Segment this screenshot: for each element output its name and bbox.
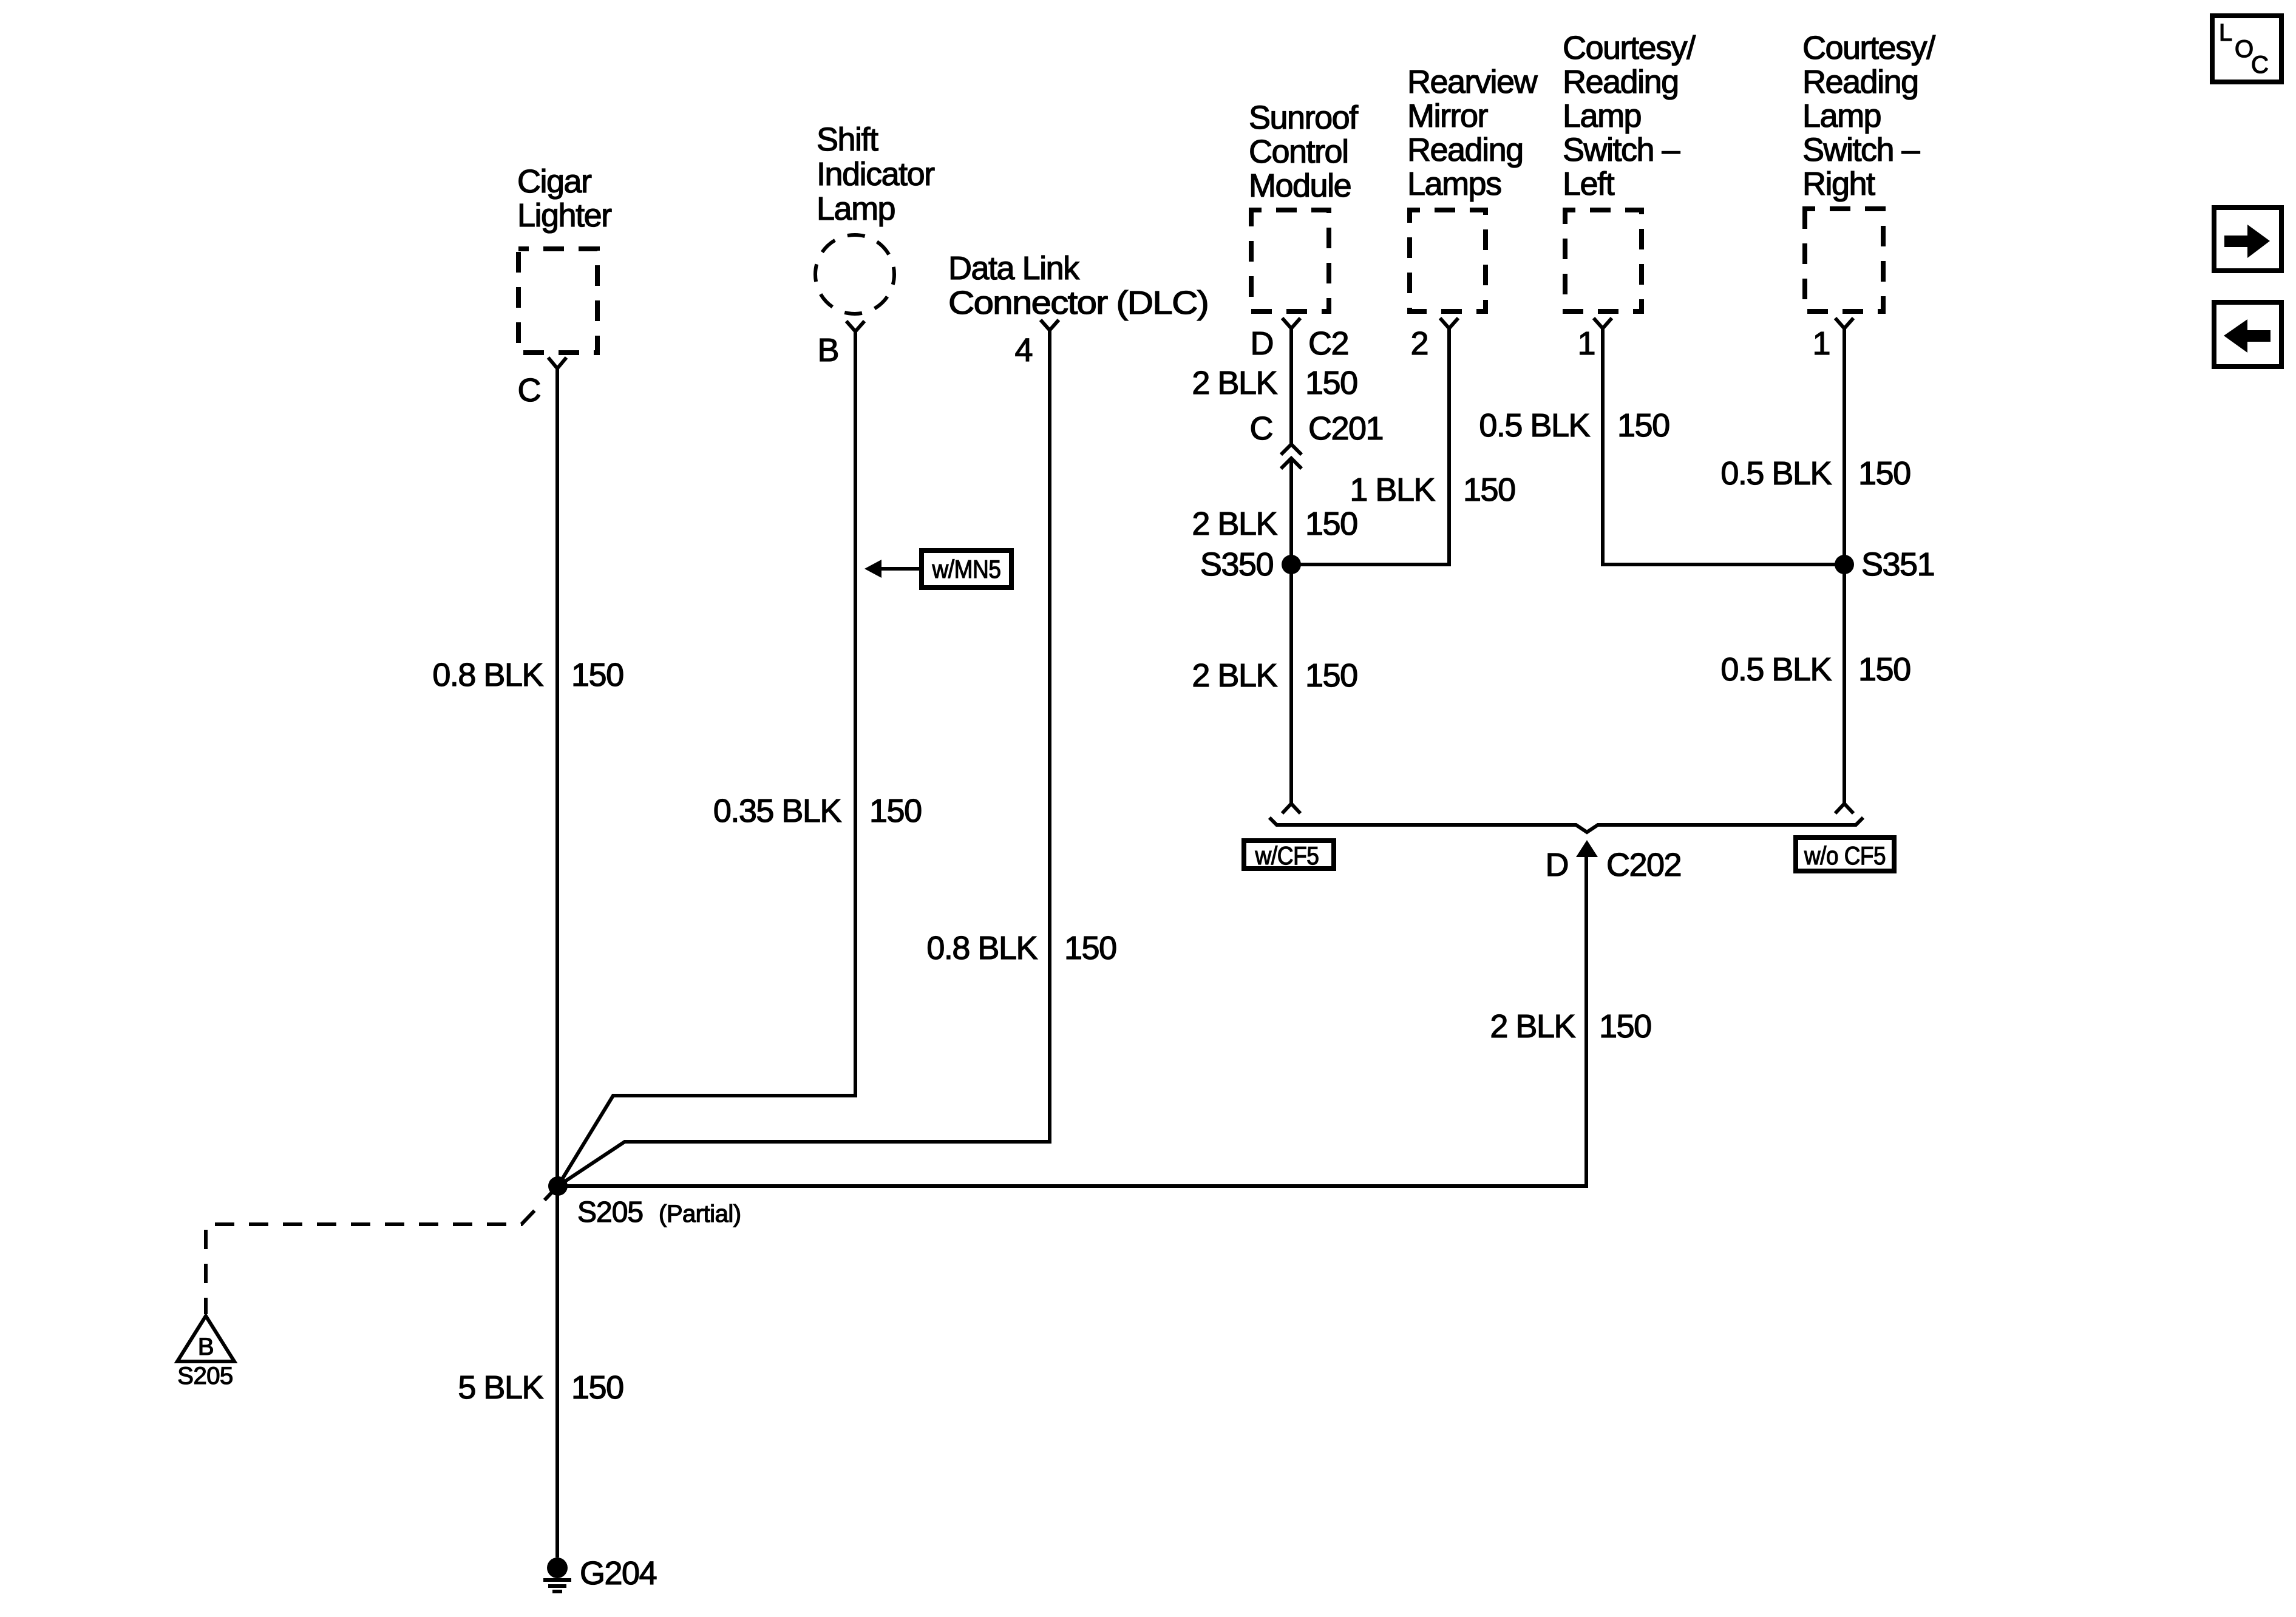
svg-text:0.35 BLK: 0.35 BLK [713,793,842,829]
svg-text:S205: S205 [177,1363,233,1389]
connector Y at rearview mirror lamps pin 2 [1440,318,1458,328]
wire courtesy switch left to S351, 0.5 BLK 150 [1603,328,1844,564]
option tag w/CF5 [1244,841,1334,870]
svg-text:G204: G204 [580,1555,657,1592]
wire label 5 BLK 150 [458,1369,623,1406]
connector Y at courtesy switch right pin 1 [1835,318,1853,328]
wire label 2 BLK 150 (above S350) [1192,506,1357,542]
wire label 0.5 BLK 150 [1479,407,1669,444]
svg-text:Lamp: Lamp [1563,98,1641,134]
svg-text:Connector (DLC): Connector (DLC) [948,285,1208,321]
dashed wire S205 to off-page reference B [206,1186,558,1314]
connector fork at bottom of sunroof ground wire [1282,804,1300,813]
wire C201 to S350 to C202, 2 BLK 150 [1289,458,1293,804]
svg-text:Cigar: Cigar [517,163,592,200]
ground G204 [543,1555,657,1592]
component Courtesy/Reading Lamp Switch - Left (dashed box) [1563,30,1696,311]
wire label 0.8 BLK 150 [432,657,623,693]
wire shift indicator lamp to S205, 0.35 BLK 150 [558,331,855,1186]
pin D label and connector C2 label [1251,325,1349,362]
svg-text:S205: S205 [577,1196,643,1229]
svg-text:S351: S351 [1861,546,1934,583]
svg-text:w/o CF5: w/o CF5 [1804,841,1886,870]
wire DLC to S205, 0.8 BLK 150 [558,330,1050,1186]
wire label 2 BLK 150 [1192,365,1357,401]
svg-text:150: 150 [571,657,623,693]
component Cigar Lighter (dashed box) [517,163,612,353]
component Sunroof Control Module (dashed box) [1249,100,1359,311]
svg-text:0.5 BLK: 0.5 BLK [1720,651,1832,688]
svg-text:Mirror: Mirror [1407,98,1488,134]
svg-text:150: 150 [1858,455,1911,492]
connector Y at courtesy switch left pin 1 [1594,318,1612,328]
wire label 0.35 BLK 150 [713,793,922,829]
right arrow navigation box [2214,208,2281,271]
svg-text:Indicator: Indicator [817,156,935,192]
svg-text:0.8 BLK: 0.8 BLK [432,657,543,693]
wire sunroof module to C201, 2 BLK 150 [1289,328,1293,444]
off-page reference triangle B S205 [177,1316,234,1389]
svg-text:B: B [198,1334,214,1360]
svg-text:C: C [518,372,541,408]
svg-text:4: 4 [1014,332,1032,368]
svg-text:5 BLK: 5 BLK [458,1369,543,1406]
svg-text:Rearview: Rearview [1407,64,1538,100]
wire label 0.8 BLK 150 [926,930,1116,966]
svg-text:Lamp: Lamp [817,191,895,227]
svg-text:Sunroof: Sunroof [1249,100,1359,136]
svg-text:Switch –: Switch – [1563,132,1680,168]
svg-text:0.5 BLK: 0.5 BLK [1720,455,1832,492]
svg-text:Lamps: Lamps [1407,166,1501,202]
wire label 2 BLK 150 [1490,1008,1651,1045]
svg-text:2 BLK: 2 BLK [1192,365,1277,401]
svg-text:Module: Module [1249,168,1351,204]
svg-text:Shift: Shift [817,121,878,158]
connector Y at DLC pin 4 [1041,320,1059,330]
svg-text:Lighter: Lighter [517,197,612,234]
svg-text:D: D [1546,847,1569,883]
component Rearview Mirror Reading Lamps (dashed box) [1407,64,1538,311]
svg-text:C: C [2251,52,2269,78]
svg-text:Reading: Reading [1407,132,1523,168]
LOC legend box [2212,16,2281,82]
wire label 0.5 BLK 150 (below S351) [1720,651,1910,688]
svg-text:C2: C2 [1308,325,1348,362]
svg-text:150: 150 [1858,651,1911,688]
svg-text:Control: Control [1249,134,1348,170]
wire label 0.5 BLK 150 (above S351) [1720,455,1910,492]
option tag w/o CF5 [1796,838,1894,871]
svg-text:1: 1 [1812,325,1830,362]
svg-text:Reading: Reading [1563,64,1679,100]
svg-text:150: 150 [571,1369,623,1406]
svg-text:C: C [1250,410,1273,447]
component Data Link Connector (DLC) label [948,250,1208,321]
splice S351 [1835,546,1934,583]
splice S350 [1200,546,1301,583]
svg-text:2: 2 [1410,325,1428,362]
connector C202 pin D arrow [1546,840,1682,883]
wire courtesy switch right to S351 to C202, 0.5 BLK 150 [1843,328,1846,804]
svg-text:150: 150 [1305,657,1357,694]
option tag w/MN5 with left arrow [864,551,1011,588]
svg-text:Left: Left [1563,166,1615,202]
svg-text:Right: Right [1802,166,1875,202]
connector Y at shift indicator lamp pin B [846,321,864,331]
svg-text:Courtesy/: Courtesy/ [1802,30,1935,66]
svg-text:B: B [817,332,838,368]
connector Y at cigar lighter pin C [548,358,566,368]
svg-text:D: D [1251,325,1274,362]
svg-text:150: 150 [1599,1008,1651,1045]
wire C202 to S205, 2 BLK 150 [558,851,1586,1186]
svg-text:150: 150 [1463,472,1515,508]
svg-text:150: 150 [1305,506,1357,542]
svg-text:1: 1 [1577,325,1595,362]
svg-text:Switch –: Switch – [1802,132,1920,168]
splice S205 (Partial) [548,1176,741,1229]
svg-text:2 BLK: 2 BLK [1490,1008,1575,1045]
connector Y at sunroof module pin D (C2) [1282,318,1300,328]
svg-text:(Partial): (Partial) [659,1201,741,1227]
svg-text:0.5 BLK: 0.5 BLK [1479,407,1590,444]
svg-text:0.8 BLK: 0.8 BLK [926,930,1038,966]
component Shift Indicator Lamp (dashed circle) [815,121,935,314]
wire rearview mirror lamps to S350, 1 BLK 150 [1291,328,1449,564]
svg-text:150: 150 [1064,930,1116,966]
svg-text:Courtesy/: Courtesy/ [1563,30,1696,66]
svg-text:Data Link: Data Link [948,250,1080,286]
wire cigar lighter to S205 to G204, 0.8 BLK 150 / 5 BLK 150 [555,368,559,1558]
wire label 1 BLK 150 [1350,472,1515,508]
wire label 2 BLK 150 (below S350) [1192,657,1357,694]
svg-text:150: 150 [1305,365,1357,401]
svg-text:Reading: Reading [1802,64,1918,100]
svg-text:C201: C201 [1308,410,1383,447]
svg-text:2 BLK: 2 BLK [1192,657,1277,694]
svg-text:w/CF5: w/CF5 [1255,841,1319,870]
svg-text:w/MN5: w/MN5 [932,555,1001,583]
svg-text:Lamp: Lamp [1802,98,1881,134]
svg-text:L: L [2219,19,2232,46]
connector C202 brace [1269,818,1863,832]
svg-text:2 BLK: 2 BLK [1192,506,1277,542]
svg-text:S350: S350 [1200,546,1273,583]
svg-text:1 BLK: 1 BLK [1350,472,1435,508]
connector fork at bottom of courtesy right ground wire [1835,804,1853,813]
in-line connector C201 (double chevron) pin C [1250,410,1384,469]
svg-text:C202: C202 [1606,847,1681,883]
component Courtesy/Reading Lamp Switch - Right (dashed box) [1802,30,1935,311]
svg-text:150: 150 [869,793,922,829]
left arrow navigation box [2214,302,2281,367]
svg-text:150: 150 [1617,407,1669,444]
